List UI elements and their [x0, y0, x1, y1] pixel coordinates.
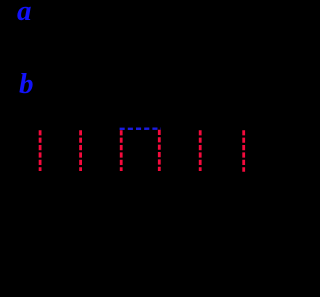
red dashed transition marker 6 [242, 130, 245, 172]
svg-text:a: a [17, 0, 32, 27]
blue dashed pulse-top marker on signal b [120, 127, 161, 130]
red dashed transition marker 1 [39, 130, 42, 171]
red dashed transition marker 4 [158, 130, 161, 171]
red dashed transition marker 5 [199, 130, 202, 171]
red dashed transition marker 3 [120, 130, 123, 171]
red dashed transition marker 2 [79, 130, 82, 171]
svg-text:b: b [19, 68, 34, 100]
